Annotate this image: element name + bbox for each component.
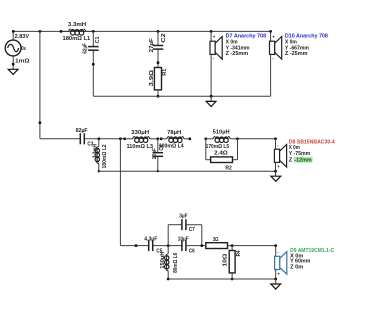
- label 150µH: [160, 252, 166, 269]
- junction dot L4 left: [160, 137, 163, 140]
- ground (bottom section): [271, 279, 281, 289]
- label 180mΩ L1: [63, 36, 91, 42]
- svg-text:Z -25mm: Z -25mm: [285, 51, 308, 57]
- junction dot L6 bottom: [167, 278, 170, 281]
- label 4.3µF: [144, 237, 158, 243]
- wire bottom return rail: [168, 278, 276, 280]
- junction dot top ground: [210, 95, 213, 98]
- label 0s: [21, 46, 26, 52]
- wire D10 top: [270, 31, 272, 41]
- junction dot L5 right: [236, 137, 239, 140]
- label 510µH: [213, 129, 230, 135]
- svg-text:-12mm: -12mm: [294, 158, 311, 164]
- label 3.3mH L2: [92, 144, 98, 158]
- wire mid rail to D8: [238, 138, 276, 140]
- svg-text:2.4Ω: 2.4Ω: [214, 151, 228, 157]
- svg-text:80mΩ L6: 80mΩ L6: [173, 253, 179, 273]
- wire mid rail seg2: [84, 138, 124, 140]
- svg-text:Z -25mm: Z -25mm: [226, 51, 249, 57]
- speaker D9: [275, 250, 287, 277]
- label C2: [161, 33, 167, 42]
- wire D8 bottom: [275, 162, 277, 171]
- svg-text:100mΩ L4: 100mΩ L4: [159, 144, 185, 150]
- junction dot R1 bottom: [157, 95, 160, 98]
- label 78µH: [167, 130, 181, 136]
- wire top rail: [13, 30, 270, 32]
- junction dot feed wire vertex: [39, 121, 42, 124]
- junction dot L5 left: [204, 137, 207, 140]
- junction dot C1 pin: [92, 63, 95, 66]
- svg-text:R4: R4: [236, 250, 242, 257]
- label C1: [95, 36, 101, 43]
- wire D9 top: [275, 246, 277, 257]
- capacitor C6: [182, 240, 186, 251]
- wire C7 branch top-right: [186, 224, 202, 226]
- junction dot node D8: [274, 137, 277, 140]
- label 82µF: [76, 128, 88, 134]
- junction dot C4 bottom: [157, 170, 159, 172]
- capacitor C3: [80, 133, 84, 144]
- wire D8 top: [275, 139, 277, 149]
- label D9 AMT19CM1.1-C: [290, 248, 334, 254]
- wire bottom rail seg2: [153, 245, 182, 247]
- inductor L6: [165, 246, 169, 279]
- capacitor C7: [182, 219, 186, 230]
- label 10µF C6: [178, 237, 189, 243]
- svg-text:0s: 0s: [21, 46, 26, 52]
- svg-text:10Ω: 10Ω: [222, 253, 228, 267]
- svg-text:3.3mH: 3.3mH: [92, 144, 98, 158]
- capacitor C1: [88, 31, 99, 96]
- label C4: [159, 144, 165, 151]
- label 3.9Ω: [149, 69, 155, 86]
- wire mid rail left: [40, 138, 80, 140]
- svg-text:510µH: 510µH: [213, 129, 230, 135]
- label 330µH: [131, 130, 149, 136]
- svg-text:10µF: 10µF: [178, 237, 189, 243]
- wire C7 branch top-left: [168, 224, 182, 226]
- svg-text:Y -75mm: Y -75mm: [289, 151, 310, 157]
- svg-text:62µF: 62µF: [83, 43, 89, 54]
- wire feed to bottom rail: [119, 139, 121, 246]
- wire mid return rail: [99, 170, 276, 172]
- svg-text:3.3mH: 3.3mH: [68, 22, 86, 28]
- junction dot L4 right: [188, 137, 191, 140]
- wire D7 top: [210, 31, 212, 41]
- svg-text:1mΩ: 1mΩ: [15, 59, 30, 65]
- junction dot bottom ground: [274, 278, 277, 281]
- label C3: [87, 142, 93, 148]
- speaker D8: [274, 143, 286, 170]
- junction dot bottom vertex: [135, 244, 138, 247]
- junction dot node C2: [157, 30, 160, 33]
- svg-text:C1: C1: [95, 36, 101, 43]
- junction dot source ground: [12, 63, 15, 66]
- inductor L2: [95, 139, 99, 171]
- junction dot mid ground: [274, 170, 277, 173]
- wire D7 bottom: [210, 54, 212, 96]
- label 10µF C4: [152, 147, 158, 159]
- label D10 Y -667mm: [285, 45, 309, 51]
- svg-text:R1: R1: [162, 69, 168, 76]
- inductor L3: [125, 137, 158, 143]
- speaker D7: [210, 35, 222, 62]
- junction dot L3 left: [123, 137, 126, 140]
- label R2: [225, 165, 231, 171]
- ground (source): [8, 69, 18, 74]
- wire D9 bottom: [275, 270, 277, 280]
- ground (top section): [206, 96, 216, 106]
- wire C7 branch up-left: [167, 225, 169, 246]
- label D9 Y 60mm: [290, 259, 310, 265]
- label D7 Z -25mm: [226, 51, 249, 57]
- label 2.4Ω: [214, 151, 228, 157]
- svg-text:+: +: [213, 35, 216, 40]
- label 80mΩ L6: [173, 253, 179, 273]
- svg-text:+: +: [277, 164, 280, 169]
- capacitor C5: [149, 240, 153, 251]
- label D9 Z 0m: [290, 264, 303, 270]
- highlight Z -12mm: [294, 157, 313, 163]
- label R4: [236, 250, 242, 257]
- svg-text:3.9Ω: 3.9Ω: [149, 69, 155, 86]
- wire bottom rail seg3: [186, 245, 206, 247]
- wire bottom rail seg4: [228, 245, 276, 247]
- svg-text:Z: Z: [289, 158, 293, 164]
- label D8 X 0m: [289, 145, 300, 151]
- label D8 Z -12mm: [289, 158, 312, 164]
- inductor L4: [161, 137, 190, 143]
- junction dot node L2: [97, 137, 100, 140]
- label 10Ω: [222, 253, 228, 267]
- label 110mΩ L3: [127, 144, 154, 150]
- label 62µF: [83, 43, 89, 54]
- svg-text:78µH: 78µH: [167, 130, 181, 136]
- label D7 Y -341mm: [226, 45, 250, 51]
- svg-text:2.83V: 2.83V: [15, 34, 30, 40]
- speaker D10: [270, 35, 282, 62]
- junction dot node D10: [269, 30, 272, 33]
- junction dot C7 rejoin: [200, 244, 203, 247]
- wire C7 branch down-right: [201, 225, 203, 246]
- resistor R4: [229, 246, 235, 279]
- label D10 X 0m: [285, 40, 297, 46]
- junction dot node C4: [156, 137, 159, 140]
- label 3.3mH: [68, 22, 86, 28]
- svg-text:C6: C6: [189, 249, 195, 255]
- capacitor C2: [153, 31, 164, 67]
- svg-text:330µH: 330µH: [131, 130, 149, 136]
- junction dot node D7: [210, 30, 213, 33]
- svg-text:C7: C7: [189, 227, 195, 233]
- inductor L1: [61, 29, 93, 35]
- label 170mΩ L5: [206, 144, 230, 150]
- label 3µF: [179, 214, 188, 220]
- label 180mΩ L2: [102, 144, 108, 168]
- resistor R3: [206, 243, 228, 249]
- capacitor C4: [153, 139, 164, 171]
- label D7 X 0m: [226, 40, 238, 46]
- junction dot L2 bottom: [98, 170, 100, 172]
- wire top return rail: [93, 95, 270, 97]
- label D8 Y -75mm: [289, 151, 310, 157]
- junction dot node D9: [274, 244, 277, 247]
- wire feed to mid rail: [39, 31, 41, 138]
- svg-text:82µF: 82µF: [76, 128, 88, 134]
- svg-text:4.3µF: 4.3µF: [144, 237, 158, 243]
- label C7: [189, 227, 195, 233]
- junction dot node L6-C7: [167, 244, 170, 247]
- svg-text:170mΩ L5: 170mΩ L5: [206, 144, 230, 150]
- svg-text:+: +: [277, 271, 280, 276]
- svg-text:180mΩ L2: 180mΩ L2: [102, 144, 108, 168]
- label 1mΩ: [15, 59, 30, 65]
- junction dot node C1: [92, 30, 95, 33]
- label C5: [156, 249, 162, 255]
- label D9 X 0m: [290, 253, 303, 259]
- wire D10 bottom: [270, 54, 272, 96]
- voltage source V1: [5, 31, 21, 69]
- junction dot C2-R1: [157, 61, 160, 64]
- svg-text:Z 0m: Z 0m: [290, 264, 303, 270]
- svg-text:10µF: 10µF: [152, 147, 158, 159]
- label C6: [189, 249, 195, 255]
- svg-text:180mΩ L1: 180mΩ L1: [63, 36, 91, 42]
- svg-text:C2: C2: [161, 33, 167, 42]
- junction dot R4 bottom: [231, 278, 234, 281]
- svg-text:110mΩ L3: 110mΩ L3: [127, 144, 154, 150]
- label D10 Z -25mm: [285, 51, 308, 57]
- label 100mΩ L4: [159, 144, 185, 150]
- svg-text:3Ω: 3Ω: [213, 237, 219, 243]
- junction dot top-left corner: [12, 30, 15, 33]
- junction dot L1 left: [60, 30, 63, 33]
- label R1: [162, 69, 168, 76]
- label 2.83V: [15, 34, 30, 40]
- label 27µF: [149, 38, 155, 53]
- label 3Ω: [213, 237, 219, 243]
- label D7 Anarchy 708: [226, 34, 267, 40]
- ground (mid section): [271, 171, 281, 181]
- junction dot feed node: [39, 30, 42, 33]
- svg-text:+: +: [272, 35, 275, 40]
- wire bottom rail seg1: [120, 245, 148, 247]
- label D10 Anarchy 708: [285, 34, 328, 40]
- inductor L5: [206, 137, 238, 143]
- svg-text:R2: R2: [225, 165, 231, 171]
- svg-text:27µF: 27µF: [149, 38, 155, 53]
- junction dot node R4: [231, 244, 234, 247]
- resistor R1: [154, 68, 161, 97]
- resistor R2: [206, 139, 238, 163]
- junction dot tweeter feed: [119, 137, 122, 140]
- svg-text:150µH: 150µH: [160, 252, 166, 269]
- label D8 SB15NBAC30-4: [289, 140, 336, 146]
- svg-text:3µF: 3µF: [179, 214, 188, 220]
